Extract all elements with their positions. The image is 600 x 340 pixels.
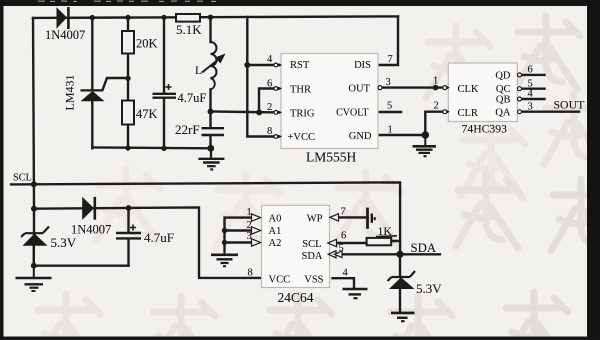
zener D4 5.3V	[388, 271, 443, 296]
svg-text:QD: QD	[495, 71, 511, 82]
resistor 20K	[122, 31, 158, 54]
pin marker THR 6	[267, 79, 282, 91]
ground A pins	[211, 251, 238, 266]
svg-text:2: 2	[434, 101, 439, 112]
svg-text:47K: 47K	[136, 107, 158, 121]
svg-text:8: 8	[267, 126, 272, 137]
pin A2 3	[247, 231, 261, 246]
wire TRIG branch	[211, 110, 279, 113]
resistor 47K	[122, 101, 158, 125]
wire SDA net	[340, 253, 440, 255]
svg-text:CLK: CLK	[458, 84, 479, 95]
pin QB 4	[518, 89, 534, 101]
wire VCC riser x248	[247, 17, 278, 137]
counter chip U3 74HC393	[448, 63, 517, 136]
capacitor C1 4.7uF	[153, 84, 207, 105]
svg-text:DIS: DIS	[354, 60, 371, 71]
wire top rail	[33, 16, 398, 18]
svg-text:SDA: SDA	[301, 251, 322, 262]
wire zener1 bottom rail	[34, 265, 129, 267]
svg-text:5.3V: 5.3V	[416, 281, 442, 296]
wire DIS riser	[378, 16, 398, 65]
wire 20K leads	[127, 18, 129, 149]
border right	[587, 0, 600, 340]
svg-text:GND: GND	[349, 131, 372, 142]
svg-text:QB: QB	[496, 95, 511, 106]
wire CVOLT stub	[378, 111, 401, 113]
svg-text:5.1K: 5.1K	[176, 22, 202, 37]
svg-text:1: 1	[247, 207, 252, 218]
pin A1 2	[247, 220, 261, 234]
svg-text:5: 5	[339, 243, 344, 254]
pin marker +VCC 8	[267, 126, 282, 138]
wire SCL pin6	[336, 241, 400, 243]
svg-text:1: 1	[433, 76, 438, 87]
svg-text:2: 2	[267, 102, 272, 113]
wire LM431 anode	[91, 101, 93, 148]
svg-text:7: 7	[388, 54, 393, 65]
svg-text:4: 4	[267, 54, 273, 65]
wire 2nd supply rail	[34, 207, 262, 278]
diode D2 1N4007	[71, 197, 111, 237]
pin WP 7 and terminator	[330, 207, 375, 229]
svg-text:+VCC: +VCC	[288, 132, 316, 143]
svg-text:L: L	[195, 65, 202, 77]
inductor L	[195, 42, 226, 90]
pin OUT 3	[378, 77, 391, 90]
border top	[0, 0, 600, 6]
svg-text:4.7uF: 4.7uF	[178, 91, 207, 105]
wire SCL bus	[11, 182, 400, 254]
svg-text:LM431: LM431	[63, 75, 77, 111]
svg-text:6: 6	[267, 79, 272, 90]
ground main	[198, 148, 224, 169]
resistor 5.1K	[176, 14, 202, 37]
svg-text:VCC: VCC	[269, 274, 291, 285]
wire THR branch	[259, 89, 278, 113]
wire 4.7uF C1 leads	[163, 17, 165, 148]
memory chip U4 24C64	[262, 205, 330, 305]
ground zener2	[391, 313, 415, 321]
svg-text:WP: WP	[307, 213, 323, 224]
shunt regulator U2 LM431	[63, 75, 105, 111]
svg-text:VSS: VSS	[304, 274, 323, 285]
svg-text:SOUT: SOUT	[554, 98, 586, 112]
svg-text:TRIG: TRIG	[290, 109, 315, 120]
wire bottom analog	[92, 146, 210, 149]
wire RST branch	[247, 64, 278, 66]
svg-text:THR: THR	[290, 85, 311, 96]
svg-text:RST: RST	[290, 60, 310, 71]
wire LM431 cathode	[91, 18, 93, 90]
zener D3 5.3V	[21, 227, 77, 266]
svg-text:4: 4	[343, 268, 349, 279]
pin marker TRIG 2	[267, 102, 282, 115]
svg-text:3: 3	[528, 101, 533, 112]
wire QA / SOUT	[522, 110, 579, 112]
svg-text:OUT: OUT	[348, 84, 370, 95]
svg-text:6: 6	[528, 65, 533, 76]
wire QD pin	[522, 74, 545, 76]
pin CLR 2	[434, 101, 450, 114]
svg-text:A2: A2	[269, 238, 282, 249]
svg-text:1N4007: 1N4007	[71, 223, 111, 237]
svg-text:8: 8	[248, 268, 253, 279]
wire VSS pin	[333, 278, 355, 288]
pin QD 6	[518, 65, 533, 77]
resistor 1K	[367, 224, 397, 245]
pin QA 3	[518, 101, 533, 113]
svg-text:4.7uF: 4.7uF	[144, 230, 174, 245]
svg-text:2: 2	[247, 220, 252, 231]
svg-text:7: 7	[341, 207, 346, 218]
svg-text:LM555H: LM555H	[306, 150, 357, 165]
svg-text:1N4007: 1N4007	[45, 28, 85, 42]
svg-text:SDA: SDA	[411, 241, 437, 255]
wire QC pin	[522, 87, 545, 89]
svg-text:5: 5	[387, 101, 392, 112]
diode D1 1N4007	[45, 7, 85, 42]
wire QB pin	[522, 98, 545, 100]
ground at 555 GND	[413, 135, 437, 156]
wire LM431 reference	[103, 78, 129, 90]
svg-text:SCL: SCL	[302, 239, 321, 250]
ground VSS	[343, 289, 368, 298]
op chip U1 LM555H	[281, 54, 378, 165]
svg-text:24C64: 24C64	[278, 290, 314, 305]
wire A0 A1 A2 bus	[225, 218, 253, 251]
svg-text:74HC393: 74HC393	[462, 123, 508, 136]
pin A0 1	[247, 207, 261, 221]
svg-text:3: 3	[386, 77, 391, 88]
wire GND pin	[378, 134, 425, 136]
wire inductor leads	[209, 17, 211, 148]
wire OUT to CLK	[381, 86, 442, 88]
svg-text:CVOLT: CVOLT	[336, 107, 368, 118]
wire WP pin	[338, 216, 367, 218]
svg-text:4: 4	[528, 89, 534, 100]
capacitor C2 4.7uF	[116, 225, 174, 246]
pin QC 5	[518, 78, 533, 90]
svg-text:QC: QC	[496, 84, 511, 95]
wire CLR riser	[425, 112, 442, 135]
capacitor 22rF	[175, 122, 224, 137]
svg-text:QA: QA	[495, 107, 511, 118]
pin CLK 1	[433, 76, 450, 91]
svg-text:6: 6	[341, 231, 346, 242]
svg-text:1: 1	[388, 125, 393, 136]
svg-text:5.3V: 5.3V	[51, 235, 77, 250]
svg-text:22rF: 22rF	[175, 122, 200, 137]
border left	[0, 0, 4, 340]
pin marker RST 4	[267, 54, 282, 67]
wire zener2 leads	[399, 254, 401, 312]
svg-text:SCL: SCL	[13, 173, 32, 184]
wire left rail	[33, 18, 34, 266]
svg-text:A0: A0	[269, 213, 282, 224]
svg-text:CLR: CLR	[458, 108, 478, 119]
pin SCL 6	[328, 231, 346, 247]
border bottom	[0, 337, 600, 340]
svg-text:A1: A1	[269, 226, 282, 237]
ground zener1	[16, 266, 52, 291]
svg-text:3: 3	[247, 231, 252, 242]
wire C2 leads	[127, 208, 129, 266]
svg-text:20K: 20K	[136, 37, 158, 51]
pin SDA 5	[328, 243, 344, 258]
